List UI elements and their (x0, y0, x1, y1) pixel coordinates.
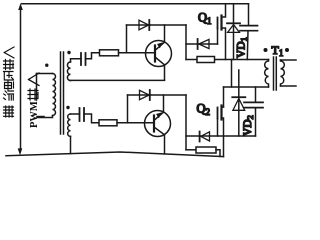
svg-text:T1: T1 (272, 43, 284, 58)
resistor R4 (Q2 gate network) (186, 147, 220, 156)
node phase dot primary (45, 63, 48, 66)
wire Q2 drain riser (223, 87, 225, 107)
svg-text:VD2: VD2 (242, 115, 255, 136)
wire bottom rail (6, 152, 224, 157)
hanzi liu (fake 流) (4, 91, 14, 100)
svg-text:Q2: Q2 (197, 102, 211, 118)
transformer T1 primary winding (265, 60, 269, 88)
transistor V1 (upper driver) (146, 25, 172, 80)
transformer T1 core (274, 57, 277, 90)
resistor R1 (upper base) (100, 50, 156, 56)
label PWM input hanzi shu (fake 输) (28, 89, 38, 100)
diode VD1 (clamp upper) (227, 4, 240, 60)
transformer T2 secondary winding upper (67, 59, 81, 81)
capacitor C4 (clamp lower) (244, 87, 263, 136)
capacitor C2 (lower coupling) (80, 108, 100, 123)
wire node1 to mid-rail connector (231, 60, 233, 88)
svg-text:Q1: Q1 (198, 11, 212, 27)
diode VD5 (Q1 gate anti-parallel) (186, 39, 218, 49)
resistor R2 (Q1 gate network) (197, 57, 215, 63)
wire node2 (Q2 source line) (186, 135, 256, 137)
wire upper return line (71, 79, 165, 81)
node input-plus arrow (left rail up arrow) (18, 3, 23, 148)
mosfet Q2 (218, 106, 224, 157)
capacitor C3 (clamp upper) (240, 4, 258, 60)
label PWM input (rotated) (29, 101, 40, 128)
resistor R3 (lower base) (99, 120, 154, 126)
label rectified voltage input (fake hanzi column) (4, 47, 15, 117)
wire lower diode riser (127, 95, 129, 123)
transformer T1 secondary winding (281, 60, 297, 86)
hanzi zheng (fake 整) (4, 106, 14, 117)
transformer T2 primary winding (37, 74, 56, 118)
diode VD3 (upper speed-up) (127, 20, 187, 30)
node phase dot T1 left (264, 48, 268, 52)
wire PWM input stub (37, 116, 44, 118)
diode VD6 (Q2 gate anti-parallel) (200, 132, 210, 142)
node phase dot T1 right (285, 48, 289, 52)
wire upper diode riser (126, 25, 128, 53)
wire node1 (Q1 source line) (186, 59, 269, 61)
diode VD2 (clamp lower) (232, 70, 245, 136)
node input-minus arrow (left rail down arrow) (18, 148, 23, 155)
label PWM input hanzi ru (fake 入) (29, 73, 40, 86)
svg-text:PWM: PWM (29, 101, 40, 128)
hanzi ru (fake 入) (4, 47, 14, 58)
hanzi shu (fake 输) (4, 60, 14, 70)
transformer T2 secondary winding lower (68, 114, 80, 154)
wire middle rail (224, 86, 269, 88)
wire Q2 drive left rail (185, 95, 187, 150)
node phase dot secondary upper (67, 51, 70, 54)
transistor V2 (lower driver) (145, 95, 171, 154)
capacitor C1 (upper coupling) (81, 53, 100, 65)
mosfet Q1 (218, 4, 226, 60)
hanzi ya (fake 压) (4, 72, 14, 81)
hanzi dian (fake 电) (5, 81, 14, 90)
transformer T2 core (61, 52, 64, 134)
node phase dot secondary lower (66, 106, 69, 109)
diode VD4 (lower speed-up) (128, 90, 187, 100)
wire top rail (22, 3, 249, 5)
wire Q1 drive left rail (185, 25, 187, 60)
